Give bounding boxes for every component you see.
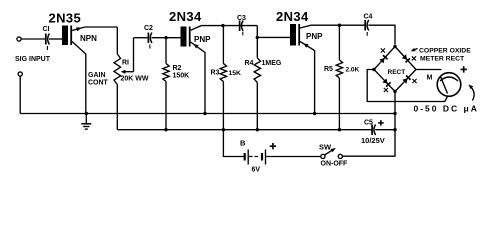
resistor R2 150K — [163, 38, 169, 130]
svg-text:METER RECT: METER RECT — [420, 55, 465, 62]
resistor R5 20K — [336, 25, 342, 130]
svg-text:R4: R4 — [245, 60, 254, 67]
diode polarity mark x (upper right) — [412, 56, 416, 60]
label 2N34 (Q2) — [169, 9, 202, 24]
label 2N34 (Q3) — [276, 9, 309, 24]
svg-text:NPN: NPN — [80, 34, 97, 43]
svg-text:2.0K: 2.0K — [346, 67, 360, 74]
label 150K — [173, 73, 190, 80]
node R3 top junction — [221, 24, 224, 27]
svg-text:GAIN: GAIN — [88, 72, 106, 79]
svg-text:C4: C4 — [364, 14, 373, 21]
meter M 0-50 DC uA — [437, 73, 461, 97]
svg-text:PNP: PNP — [306, 32, 323, 41]
wire bridge left vertex to meter bottom — [367, 70, 448, 102]
capacitor C2 — [148, 33, 180, 49]
label SW — [319, 143, 332, 152]
svg-text:PNP: PNP — [194, 35, 211, 44]
label R3 — [211, 70, 220, 77]
wire C4 to bridge top — [368, 25, 395, 44]
label C2 — [144, 25, 153, 32]
svg-text:CI: CI — [43, 26, 50, 33]
callout arrow to bridge — [411, 48, 418, 51]
wire supply rail left of C5 — [117, 129, 371, 131]
label PNP (Q2) — [194, 35, 211, 44]
capacitor C4 — [365, 20, 369, 36]
diode polarity mark x (lower left) — [384, 88, 388, 92]
svg-text:COPPER OXIDE: COPPER OXIDE — [419, 47, 471, 54]
transistor Q2 2N34 — [181, 26, 258, 114]
wire J1 to C1 — [21, 38, 45, 40]
wire J2 down to ground rail — [19, 76, 21, 113]
label ON-OFF — [321, 161, 349, 168]
diode polarity mark x (lower right) — [412, 79, 416, 83]
wire battery drop — [223, 130, 243, 157]
svg-text:10/25V: 10/25V — [361, 136, 385, 145]
node R4 bottom junction — [256, 128, 259, 131]
node bridge top vertex — [393, 45, 396, 48]
capacitor C3 — [240, 21, 244, 36]
label 20K (R5) — [346, 67, 360, 74]
label C3 — [237, 15, 246, 22]
label R2 — [173, 65, 182, 72]
node Q3 base junction — [256, 36, 259, 39]
svg-text:150K: 150K — [173, 73, 190, 80]
label C1 — [43, 26, 50, 33]
wire ground rail — [20, 113, 395, 115]
svg-text:6V: 6V — [252, 167, 261, 174]
svg-text:2N34: 2N34 — [276, 9, 309, 24]
label 10/25V — [361, 136, 385, 145]
svg-text:20K WW: 20K WW — [121, 76, 149, 83]
bridge diode D2 (upper right) — [402, 54, 410, 62]
resistor R3 15K — [220, 26, 226, 130]
label C5 — [364, 120, 373, 127]
switch SW ON-OFF — [321, 148, 343, 158]
battery plus sign — [270, 143, 276, 149]
svg-text:2N35: 2N35 — [49, 11, 82, 26]
resistor R4 1MEG — [254, 37, 260, 129]
label R5 — [324, 66, 333, 73]
label M — [427, 75, 433, 82]
label R1 — [122, 60, 129, 67]
node R5 bottom junction — [338, 128, 341, 131]
node Q3 emitter junction — [313, 112, 316, 115]
node R2 top junction — [164, 36, 167, 39]
node R2 bottom junction — [164, 128, 167, 131]
wire R1 wiper to C2 — [134, 37, 148, 39]
transistor Q1 2N35 — [62, 26, 117, 114]
svg-text:CONT: CONT — [88, 80, 109, 87]
svg-text:R5: R5 — [324, 66, 333, 73]
bridge diode D4 (lower right) — [402, 76, 410, 84]
label 20K WW — [121, 76, 149, 83]
label B — [240, 139, 246, 148]
svg-text:15K: 15K — [229, 70, 242, 77]
label 0-50 DC uA — [414, 104, 479, 114]
label NPN — [80, 34, 97, 43]
label PNP (Q3) — [306, 32, 323, 41]
node R5 top junction — [338, 24, 341, 27]
battery B 6V — [245, 150, 321, 165]
node Q2 emitter junction — [203, 112, 206, 115]
node bridge left vertex — [372, 68, 375, 71]
R1 wiper arrow — [121, 38, 134, 74]
meter deflection arrow — [469, 85, 475, 101]
svg-text:0-50 DC μA: 0-50 DC μA — [414, 104, 479, 114]
bridge diode D1 (upper left) — [379, 55, 387, 63]
svg-text:SIG INPUT: SIG INPUT — [15, 56, 51, 63]
svg-text:C5: C5 — [364, 120, 373, 127]
svg-text:2N34: 2N34 — [169, 9, 202, 24]
bridge diode D3 (lower left) — [382, 78, 390, 86]
meter plus sign — [461, 66, 467, 72]
label 15K — [229, 70, 242, 77]
svg-text:SW: SW — [319, 143, 332, 152]
capacitor C1 — [46, 34, 62, 51]
svg-text:M: M — [427, 75, 433, 82]
label C4 — [364, 14, 373, 21]
resistor R1 20K WW gain control — [114, 27, 121, 130]
label 2N35 — [49, 11, 82, 26]
C5 plus sign — [378, 120, 384, 126]
diode polarity mark x (upper left) — [381, 48, 385, 52]
svg-text:C2: C2 — [144, 25, 153, 32]
label RECT — [388, 69, 406, 76]
svg-text:1MEG: 1MEG — [262, 60, 282, 67]
wire C3 to Q3 base corner — [256, 26, 258, 38]
label GAIN CONT — [88, 72, 109, 87]
label COPPER OXIDE METER RECT — [419, 47, 471, 62]
svg-text:R2: R2 — [173, 65, 182, 72]
wire junction to Q3 base — [257, 36, 290, 38]
node supply rail right end — [393, 128, 396, 131]
svg-text:RI: RI — [122, 60, 129, 67]
wire bridge bottom to switch rail — [343, 92, 396, 157]
input terminal J1 (top) — [17, 37, 21, 41]
ground — [81, 114, 91, 130]
svg-text:ON-OFF: ON-OFF — [321, 161, 349, 168]
label R4 — [245, 60, 254, 67]
bridge rectifier diamond — [374, 47, 416, 92]
node Q1 emitter / ground junction — [85, 112, 88, 115]
label 1MEG — [262, 60, 282, 67]
svg-text:RECT: RECT — [388, 69, 406, 76]
label SIG INPUT — [15, 56, 51, 63]
svg-text:B: B — [240, 139, 246, 148]
node ground rail right end — [393, 112, 396, 115]
node R3 bottom / battery junction — [222, 128, 225, 131]
node bridge bottom vertex — [393, 90, 396, 93]
transistor Q3 2N34 — [290, 24, 365, 114]
capacitor C5 10/25V — [372, 125, 395, 136]
svg-text:R3: R3 — [211, 70, 220, 77]
input terminal J2 (bottom) — [18, 72, 22, 76]
wire bridge right vertex to meter — [416, 69, 442, 71]
svg-text:C3: C3 — [237, 15, 246, 22]
label 6V — [252, 167, 261, 174]
